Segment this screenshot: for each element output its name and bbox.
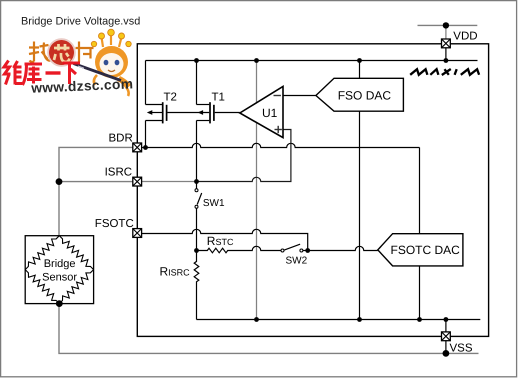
- switch SW1: [195, 189, 202, 209]
- dac FSO DAC: [316, 78, 404, 111]
- watermark char zhao: [29, 42, 51, 62]
- node BDR/T2 drain dot: [143, 145, 148, 150]
- wire VDD bar to pin (gray): [445, 25, 447, 39]
- wire VSS pin to external dot: [445, 341, 447, 354]
- svg-text:BDR: BDR: [109, 133, 133, 145]
- node rail/bias dot: [254, 58, 259, 63]
- transistor T1: [197, 102, 240, 123]
- external wire bridge bottom to VSS rail (gray): [59, 304, 479, 354]
- external wire BDR/ISRC to bridge (gray): [59, 147, 133, 235]
- resistor RSTC: [197, 246, 282, 252]
- svg-text:VDD: VDD: [453, 30, 477, 42]
- wire T2 drain vertical: [145, 121, 147, 148]
- watermark dzsc: [4, 29, 134, 96]
- watermark char pian: [76, 42, 94, 63]
- wire FSO DAC supply vertical: [359, 61, 361, 320]
- wire T1 drain vertical: [196, 121, 198, 182]
- watermark mascot: [74, 29, 132, 96]
- node rail/VDD pin dot: [444, 58, 449, 63]
- pin VDD: [442, 39, 451, 48]
- wire VDD pin to rail: [445, 48, 447, 61]
- svg-text:RISRC: RISRC: [160, 264, 191, 278]
- wire U1 minus input to FSO DAC: [283, 95, 316, 97]
- node VDD external dot: [443, 22, 449, 28]
- svg-text:T1: T1: [212, 92, 225, 104]
- svg-text:RSTC: RSTC: [207, 234, 234, 248]
- wire T2 source vertical: [145, 61, 147, 105]
- wire T1 source vertical: [196, 61, 198, 105]
- wire VSS pin drop: [445, 320, 447, 332]
- node bottom rail/VSS pin dot: [444, 317, 449, 322]
- node ISRC/SW1 dot: [194, 179, 199, 184]
- pin BDR: [133, 143, 142, 152]
- watermark red brand text ku: [23, 64, 43, 85]
- svg-text:FSOTC DAC: FSOTC DAC: [391, 243, 461, 257]
- IC boundary box: [137, 44, 488, 337]
- op-amp U1: [240, 86, 283, 137]
- node bridge bottom dot: [56, 300, 63, 307]
- resistor bridge bottom-right: [59, 270, 93, 304]
- pin ISRC: [133, 177, 142, 186]
- wire SW2 to FSOTC DAC with hop: [308, 246, 378, 250]
- svg-text:U1: U1: [262, 106, 278, 120]
- svg-text:Bridge Drive Voltage.vsd: Bridge Drive Voltage.vsd: [21, 16, 140, 28]
- pin FSOTC: [133, 229, 142, 238]
- wire internal VDD top rail: [146, 60, 478, 62]
- node bottom rail/bias dot: [254, 317, 259, 322]
- node bottom rail/feedback dot: [417, 317, 422, 322]
- node bottom rail/FSO DAC dot: [357, 317, 362, 322]
- resistor bridge top-right: [59, 236, 93, 270]
- resistor RISRC: [194, 251, 199, 320]
- watermark red brand text xia: [63, 63, 81, 84]
- svg-text:FSOTC: FSOTC: [95, 218, 134, 230]
- svg-text:SW2: SW2: [286, 256, 308, 267]
- watermark red brand text yi: [46, 71, 61, 74]
- watermark red brand text wei: [4, 61, 22, 85]
- bridge sensor box: [25, 236, 93, 307]
- transistor T2: [146, 102, 210, 123]
- svg-text:VSS: VSS: [450, 343, 473, 355]
- watermark badge xin: [47, 38, 75, 66]
- svg-text:Sensor: Sensor: [42, 272, 77, 284]
- svg-text:FSO DAC: FSO DAC: [338, 88, 392, 102]
- wire SW1 top: [196, 182, 198, 189]
- node RSTC/RISRC junction dot: [194, 248, 199, 253]
- wire ISRC to U1 plus input with hop: [197, 130, 291, 182]
- dac FSOTC DAC: [378, 234, 463, 266]
- node SW2/FSOTC junction dot: [305, 248, 310, 253]
- wire bottom VSS rail: [197, 319, 481, 321]
- svg-text:Bridge: Bridge: [44, 258, 76, 270]
- pin VSS: [442, 332, 451, 341]
- svg-text:T2: T2: [164, 92, 177, 104]
- wire SW1 bottom: [196, 208, 198, 250]
- resistor bridge bottom-left: [25, 270, 59, 304]
- wire BDR feedback vertical to bottom rail: [419, 148, 421, 320]
- switch SW2: [281, 244, 308, 252]
- wire FSOTC line with hops: [142, 229, 308, 250]
- wire gray bias vertical (rail to bottom rail): [256, 61, 258, 320]
- node VSS external dot: [443, 350, 450, 357]
- wire BDR line with hops: [142, 143, 420, 147]
- node rail/FSO DAC dot: [357, 58, 362, 63]
- logo MAXIM: [410, 69, 479, 75]
- svg-text:SW1: SW1: [203, 198, 225, 209]
- svg-text:ISRC: ISRC: [105, 167, 132, 179]
- node bridge-top junction dot: [56, 178, 63, 185]
- node rail/T1 source dot: [194, 58, 199, 63]
- resistor bridge top-left: [25, 236, 59, 270]
- external VDD bar (gray): [418, 24, 478, 26]
- wire ISRC pin segment (gray): [142, 181, 197, 183]
